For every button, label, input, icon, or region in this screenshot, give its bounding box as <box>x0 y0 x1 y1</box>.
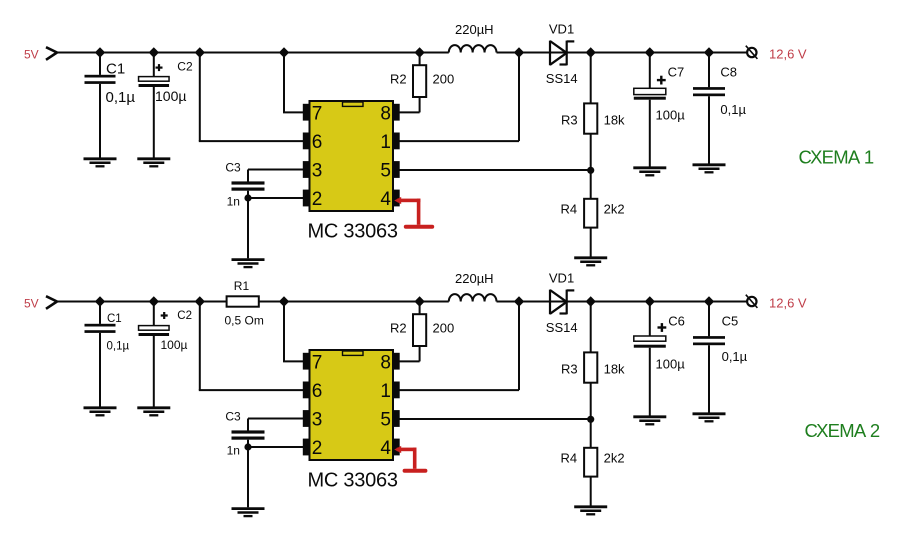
svg-text:C3: C3 <box>225 160 241 174</box>
svg-text:2: 2 <box>312 189 323 210</box>
svg-text:C5: C5 <box>722 314 739 329</box>
svg-text:100µ: 100µ <box>155 88 186 104</box>
svg-text:MC 33063: MC 33063 <box>308 470 398 492</box>
svg-text:0,1µ: 0,1µ <box>720 102 746 117</box>
svg-text:3: 3 <box>312 410 323 431</box>
svg-text:R2: R2 <box>390 321 407 336</box>
svg-text:C8: C8 <box>720 65 737 80</box>
svg-text:7: 7 <box>312 103 323 124</box>
svg-text:5V: 5V <box>24 297 39 311</box>
svg-text:0,5 Om: 0,5 Om <box>225 313 264 327</box>
svg-text:220µH: 220µH <box>455 271 494 286</box>
svg-text:1: 1 <box>380 381 391 402</box>
svg-text:0,1µ: 0,1µ <box>106 89 136 106</box>
svg-text:2k2: 2k2 <box>604 202 625 217</box>
svg-text:СХЕМА 2: СХЕМА 2 <box>805 420 880 441</box>
svg-text:1n: 1n <box>227 194 240 208</box>
svg-text:2: 2 <box>312 438 323 459</box>
svg-text:5: 5 <box>380 161 391 182</box>
svg-text:SS14: SS14 <box>546 320 578 335</box>
svg-text:5V: 5V <box>24 48 39 62</box>
svg-text:0,1µ: 0,1µ <box>722 349 748 364</box>
svg-text:R2: R2 <box>390 72 407 87</box>
svg-text:4: 4 <box>380 189 391 210</box>
svg-text:MC 33063: MC 33063 <box>308 221 398 243</box>
svg-text:18k: 18k <box>604 113 625 128</box>
svg-text:R3: R3 <box>561 362 578 377</box>
svg-text:C3: C3 <box>225 409 241 423</box>
svg-text:100µ: 100µ <box>161 338 188 352</box>
svg-text:R4: R4 <box>561 451 578 466</box>
svg-text:5: 5 <box>380 410 391 431</box>
svg-text:8: 8 <box>380 352 391 373</box>
svg-text:8: 8 <box>380 103 391 124</box>
svg-text:СХЕМА 1: СХЕМА 1 <box>799 147 874 168</box>
svg-text:1n: 1n <box>227 443 240 457</box>
svg-text:12,6 V: 12,6 V <box>769 46 807 61</box>
svg-text:SS14: SS14 <box>546 71 578 86</box>
svg-text:6: 6 <box>312 381 323 402</box>
svg-text:0,1µ: 0,1µ <box>107 341 130 353</box>
svg-text:6: 6 <box>312 132 323 153</box>
svg-text:R1: R1 <box>234 279 250 293</box>
svg-text:100µ: 100µ <box>656 107 686 122</box>
svg-text:C2: C2 <box>177 60 193 74</box>
svg-text:R4: R4 <box>561 202 578 217</box>
svg-text:200: 200 <box>433 321 455 336</box>
svg-text:1: 1 <box>380 132 391 153</box>
svg-text:R3: R3 <box>561 113 578 128</box>
svg-text:3: 3 <box>312 161 323 182</box>
svg-text:VD1: VD1 <box>549 271 574 286</box>
svg-text:18k: 18k <box>604 362 625 377</box>
svg-text:12,6 V: 12,6 V <box>769 295 807 310</box>
svg-text:7: 7 <box>312 352 323 373</box>
svg-text:C7: C7 <box>668 65 685 80</box>
svg-text:C2: C2 <box>177 310 192 322</box>
svg-text:4: 4 <box>380 438 391 459</box>
svg-text:2k2: 2k2 <box>604 451 625 466</box>
svg-text:C6: C6 <box>668 314 685 329</box>
svg-text:C1: C1 <box>106 61 125 78</box>
svg-text:100µ: 100µ <box>656 356 686 371</box>
svg-text:C1: C1 <box>107 313 122 325</box>
svg-text:200: 200 <box>433 72 455 87</box>
svg-text:VD1: VD1 <box>549 22 574 37</box>
svg-text:220µH: 220µH <box>455 22 494 37</box>
